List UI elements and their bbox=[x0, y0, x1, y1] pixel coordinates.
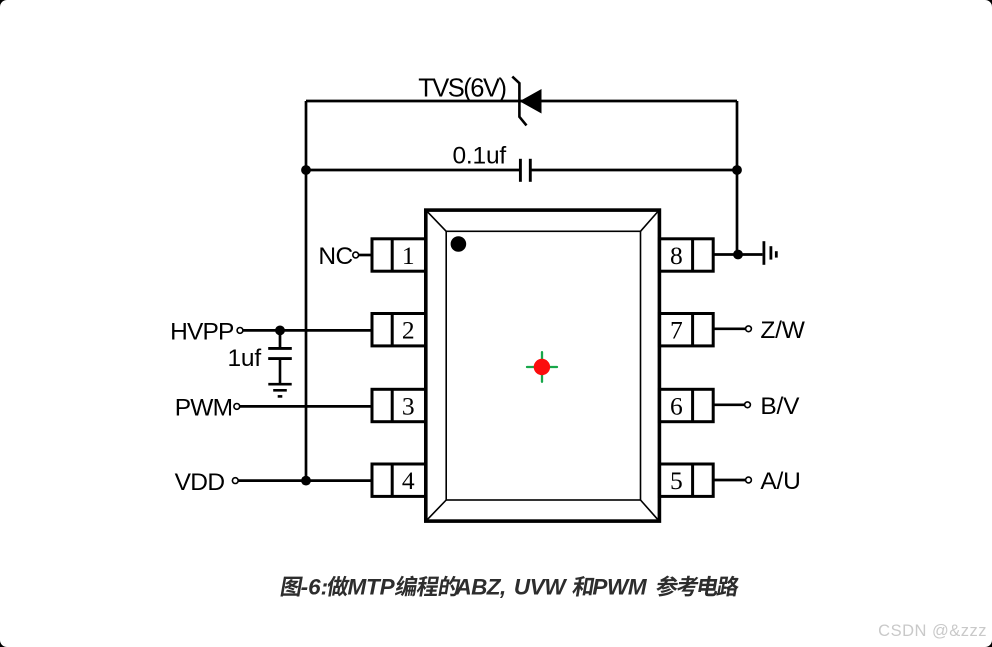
terminal circle A/U bbox=[746, 477, 752, 483]
svg-text:Z/W: Z/W bbox=[760, 317, 805, 344]
IC U1 center marker (green crosshair + red dot) bbox=[527, 352, 557, 382]
caption CJK char 做 bbox=[326, 576, 351, 597]
pin 1 box bbox=[372, 239, 426, 271]
svg-text:3: 3 bbox=[402, 391, 415, 420]
caption CJK char 程 bbox=[416, 576, 440, 596]
wire: pin 6 to B/V terminal bbox=[713, 403, 744, 406]
svg-text:VDD: VDD bbox=[175, 469, 225, 496]
svg-text:2: 2 bbox=[402, 316, 415, 345]
caption CJK char 的 bbox=[438, 576, 461, 596]
svg-text:5: 5 bbox=[670, 466, 683, 495]
svg-text:A/U: A/U bbox=[760, 468, 800, 495]
svg-text:1uf: 1uf bbox=[228, 345, 262, 372]
pin 3 box bbox=[372, 389, 426, 421]
wire: 0.1uf rail left segment bbox=[306, 169, 519, 172]
terminal circle NC bbox=[353, 252, 359, 258]
terminal circle PWM bbox=[234, 404, 240, 410]
caption CJK char 参 bbox=[655, 576, 680, 597]
svg-text:4: 4 bbox=[402, 466, 415, 495]
caption CJK char 和 bbox=[571, 576, 594, 596]
junction: left bus / 0.1uf rail bbox=[301, 165, 311, 175]
wire: 1uf lower lead to ground bbox=[279, 359, 282, 384]
svg-text:8: 8 bbox=[670, 241, 683, 270]
pin 4 box bbox=[372, 464, 426, 496]
junction: HVPP node / 1uf branch bbox=[275, 326, 285, 336]
pin 7 box bbox=[659, 314, 713, 346]
svg-text:PWM: PWM bbox=[175, 395, 232, 422]
wire: pin 7 to Z/W terminal bbox=[713, 327, 745, 330]
zener TVS diode D1 (cathode bar with bent ends, filled triangle) bbox=[512, 77, 541, 126]
svg-text:6: 6 bbox=[670, 391, 683, 420]
junction: pin 8 / right bus / ground bbox=[733, 250, 743, 260]
terminal circle HVPP bbox=[237, 328, 243, 334]
wire: left vertical bus (HVPP/TVS rail down to VDD) bbox=[305, 101, 308, 480]
ground symbol at pin 8 (sideways) bbox=[764, 241, 776, 265]
wire: VDD to pin 4 bbox=[238, 479, 372, 482]
caption CJK char 编 bbox=[394, 576, 418, 597]
svg-text:TVS(6V): TVS(6V) bbox=[418, 75, 505, 103]
terminal circle Z/W bbox=[746, 326, 752, 332]
svg-text:0.1uf: 0.1uf bbox=[453, 142, 507, 169]
wire: NC to pin 1 bbox=[359, 254, 372, 257]
wire: pin 8 to ground bbox=[713, 253, 762, 256]
caption CJK char 路 bbox=[716, 576, 741, 597]
wire: 1uf branch down from HVPP node bbox=[279, 330, 282, 347]
pin 8 box bbox=[659, 239, 713, 271]
pin 5 box bbox=[659, 464, 713, 496]
IC U1 inner bevel rectangle bbox=[446, 231, 640, 500]
IC U1 package body (outer outline) bbox=[426, 210, 660, 521]
junction: left bus / VDD bbox=[301, 476, 311, 486]
wire: pin 5 to A/U terminal bbox=[713, 479, 745, 482]
svg-text:-6:: -6: bbox=[301, 575, 329, 600]
terminal circle VDD bbox=[232, 478, 238, 484]
ground symbol under 1uf bbox=[268, 384, 291, 396]
IC U1 pin-1 index dot bbox=[451, 236, 467, 252]
svg-text:ABZ,: ABZ, bbox=[455, 575, 506, 600]
svg-text:UVW: UVW bbox=[514, 575, 567, 600]
junction: right bus / 0.1uf rail bbox=[732, 165, 742, 175]
IC U1 corner bevel diagonals bbox=[428, 212, 658, 519]
wire: top rail from left vertical to right vertical bbox=[306, 100, 737, 103]
svg-text:CSDN @&zzz: CSDN @&zzz bbox=[878, 622, 987, 640]
svg-text:MTP: MTP bbox=[348, 575, 396, 600]
wire: right vertical from top rail down to pin 8 net bbox=[736, 101, 739, 255]
pin 2 box bbox=[372, 314, 426, 346]
pin 6 box bbox=[659, 389, 713, 421]
svg-text:HVPP: HVPP bbox=[170, 319, 234, 346]
svg-text:NC: NC bbox=[318, 243, 352, 270]
wire: 0.1uf rail right segment bbox=[532, 169, 738, 172]
capacitor C2 1uf plates bbox=[268, 348, 292, 358]
svg-text:B/V: B/V bbox=[760, 393, 800, 420]
wire: HVPP to pin 2 bbox=[243, 329, 372, 332]
svg-text:PWM: PWM bbox=[592, 575, 647, 600]
caption CJK char 电 bbox=[697, 576, 720, 596]
svg-text:7: 7 bbox=[670, 316, 683, 345]
caption CJK char 图 bbox=[280, 577, 302, 597]
svg-text:1: 1 bbox=[402, 241, 415, 270]
wire: PWM to pin 3 bbox=[240, 405, 372, 408]
caption CJK char 考 bbox=[676, 576, 700, 597]
terminal circle B/V bbox=[745, 402, 751, 408]
capacitor C1 0.1uf plates bbox=[520, 159, 530, 182]
